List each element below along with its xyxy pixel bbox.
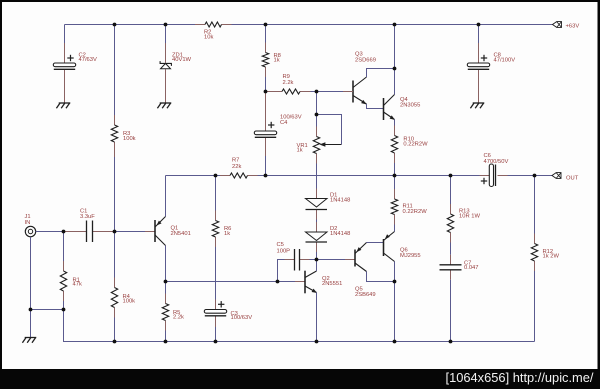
resistor R7 pins (220, 175, 258, 177)
capacitor C5 100P (277, 242, 300, 270)
wire Q2 collector up (316, 260, 318, 272)
capacitor C8 pins (478, 43, 480, 103)
capacitor C6 4700/50V (481, 153, 509, 187)
svg-text:[1064x656] http://upic.me/: [1064x656] http://upic.me/ (446, 371, 595, 385)
wire bottom rail left leg (64, 310, 535, 342)
resistor R9 2.2k (282, 74, 300, 94)
transistor Q1 2N5401 (155, 217, 191, 246)
junction node (114.5,341.5) (113, 340, 117, 344)
capacitor C2 pins (64, 43, 66, 103)
wire (31, 309, 64, 311)
terminal +63V (553, 22, 580, 30)
svg-text:2.2k: 2.2k (283, 80, 294, 86)
wire Q3 collector leg (367, 69, 395, 78)
wire (265, 25, 267, 43)
junction node (63.5,309.5) (62, 308, 66, 312)
svg-text:+63V: +63V (566, 24, 580, 30)
svg-text:0.22R2W: 0.22R2W (403, 209, 428, 215)
transistor Q4 2N3055 (384, 95, 421, 121)
svg-text:1k: 1k (224, 231, 230, 237)
junction node (316.5,91.5) (315, 90, 319, 94)
svg-text:47/63V: 47/63V (79, 57, 98, 63)
svg-text:1N4148: 1N4148 (330, 231, 350, 237)
wire (215, 247, 217, 300)
svg-text:2SB649: 2SB649 (355, 292, 376, 298)
terminal OUT (552, 173, 579, 182)
resistor R8 1k (262, 53, 281, 68)
resistor R8 pins (265, 43, 267, 78)
wire (534, 271, 536, 342)
capacitor C2 47/63V (53, 53, 97, 70)
ground under C8 (470, 103, 484, 108)
connector J1 IN (25, 214, 36, 237)
transistor Q3 2SD669 (353, 52, 376, 104)
wire (165, 25, 167, 44)
svg-text:OUT: OUT (566, 176, 579, 182)
junction node (394.5,68.5) (393, 67, 397, 71)
wire C5 left leg (278, 260, 285, 282)
svg-text:22k: 22k (232, 164, 241, 170)
wire (36, 231, 64, 233)
svg-text:R7: R7 (232, 158, 239, 164)
diode D2 pins (316, 222, 318, 252)
wire VR1 wiper loop (317, 115, 342, 145)
svg-text:0.22R2W: 0.22R2W (403, 141, 428, 147)
junction node (265.5,175.5) (264, 174, 268, 178)
transistor Q6 MJ2955 (384, 232, 421, 262)
svg-text:C4: C4 (280, 120, 288, 126)
capacitor C3 100/63V (204, 301, 252, 321)
wire (145, 231, 155, 233)
junction node (215.5,175.5) (214, 174, 218, 178)
junction node (316.5,259.5) (315, 258, 319, 262)
junction node (114.5,231.5) (113, 230, 117, 234)
svg-text:100P: 100P (277, 249, 291, 255)
resistor R3 pins (114, 115, 116, 157)
resistor R5 pins (165, 294, 167, 331)
wire (115, 231, 146, 233)
resistor R1 47k (60, 271, 82, 291)
wire Q5 collector leg (367, 272, 395, 282)
wire Q2 emitter down (316, 293, 318, 342)
wire (265, 156, 267, 176)
wire (394, 282, 396, 342)
junction node (277.5,281.5) (276, 280, 280, 284)
resistor R7 22k (230, 158, 248, 179)
junction node (394.5,175.5) (393, 174, 397, 178)
svg-text:3.3uF: 3.3uF (80, 214, 95, 220)
transistor Q2 2N5551 (305, 271, 342, 294)
wire (394, 176, 396, 190)
svg-text:1k: 1k (274, 57, 280, 63)
wire (450, 243, 452, 255)
svg-text:0.047: 0.047 (464, 265, 479, 271)
resistor R12 pins (534, 234, 536, 272)
svg-text:10k: 10k (204, 35, 213, 41)
wire (394, 163, 396, 176)
resistor R1 pins (63, 261, 65, 301)
wire (215, 327, 217, 342)
svg-text:47k: 47k (73, 281, 82, 287)
resistor R13 pins (450, 204, 452, 243)
svg-text:47/100V: 47/100V (494, 58, 516, 64)
capacitor C4 pins (265, 92, 267, 157)
resistor R2 pins (195, 24, 232, 26)
resistor R3 100k (111, 125, 135, 142)
wire feedback node rail (166, 175, 221, 177)
wire (114, 318, 116, 342)
wire +63V rail (regulated zener net, top left) (65, 24, 196, 26)
wire (345, 259, 355, 261)
wire (534, 176, 536, 234)
svg-text:2N3055: 2N3055 (400, 103, 420, 109)
wire (63, 232, 65, 262)
diode D1 1N4148 (306, 193, 351, 210)
trimmer VR1 pins (316, 127, 318, 164)
wire (317, 91, 344, 93)
wire (316, 252, 318, 260)
wire Q1 collector to Q2 base (166, 281, 296, 283)
svg-text:100k: 100k (123, 136, 136, 142)
resistor R5 2.2k (162, 304, 184, 321)
svg-text:100k: 100k (123, 298, 136, 304)
resistor R10 pins (394, 126, 396, 164)
svg-text:C5: C5 (277, 242, 284, 248)
junction node (265.5,91.5) (264, 90, 268, 94)
resistor R11 pins (394, 189, 396, 225)
resistor R2 10k (204, 22, 222, 41)
resistor R12 1k 2W (531, 244, 559, 262)
wire (64, 25, 66, 44)
junction node (114.5,24.5) (113, 23, 117, 27)
svg-text:2.2k: 2.2k (173, 314, 184, 320)
junction node (265.5,24.5) (264, 23, 268, 27)
svg-text:2N5551: 2N5551 (322, 281, 342, 287)
capacitor C8 47/100V (467, 53, 515, 70)
wire Q3 emitter to Q4 base (367, 104, 384, 109)
wire Q1 collector down (165, 246, 167, 282)
resistor R11 0.22R2W (391, 199, 427, 215)
svg-text:MJ2955: MJ2955 (400, 253, 421, 259)
junction node (63.5,231.5) (62, 230, 66, 234)
wire (317, 259, 346, 261)
svg-text:10R 1W: 10R 1W (459, 214, 480, 220)
wire (508, 175, 553, 177)
ground under ZD1 (157, 103, 171, 108)
wire (450, 280, 452, 342)
capacitor C6 pins (480, 175, 508, 177)
junction node (394.5,281.5) (393, 280, 397, 284)
svg-text:2SD669: 2SD669 (355, 57, 376, 63)
capacitor C5 pins (285, 259, 310, 261)
wire (114, 232, 116, 278)
svg-text:4700/50V: 4700/50V (484, 159, 509, 165)
resistor R6 1k (212, 221, 231, 238)
wire output rail (258, 175, 480, 177)
capacitor C7 0.047 (440, 260, 479, 271)
junction node (165.5,281.5) (164, 280, 168, 284)
wire Q5 emitter to Q6 base (367, 242, 384, 244)
junction node (394.5,341.5) (393, 340, 397, 344)
wire Q6 collector down (394, 262, 396, 282)
trimmer VR1 1k (297, 137, 342, 154)
svg-text:2N5401: 2N5401 (171, 231, 191, 237)
resistor R4 pins (114, 278, 116, 318)
wire (295, 281, 305, 283)
wire (215, 176, 217, 211)
wire collectors to +63V rail (394, 25, 396, 95)
wire (165, 282, 167, 294)
junction node (478.5,24.5) (477, 23, 481, 27)
resistor R13 10R 1W (447, 208, 480, 232)
svg-text:1k 2W: 1k 2W (543, 254, 560, 260)
junction node (450.5,341.5) (449, 340, 453, 344)
diode D2 1N4148 (306, 226, 351, 242)
wire (165, 331, 167, 342)
svg-text:100/63V: 100/63V (231, 315, 253, 321)
svg-text:1k: 1k (297, 147, 303, 153)
zener diode ZD1 40V1W (160, 53, 191, 69)
resistor R10 0.22R2W (391, 136, 428, 154)
junction node (165.5,24.5) (164, 23, 168, 27)
wire (343, 91, 353, 93)
svg-text:1N4148: 1N4148 (330, 197, 350, 203)
transistor Q5 2SB649 (355, 243, 376, 299)
wire +63V rail (main, top) (232, 24, 553, 26)
wire (316, 164, 318, 189)
resistor R6 pins (215, 211, 217, 248)
wire Q4 emitter down (394, 120, 396, 126)
capacitor C7 pins (450, 255, 452, 280)
capacitor C4 100/63V (254, 115, 301, 138)
resistor R9 pins (266, 91, 311, 93)
diode D1 pins (316, 189, 318, 220)
wire (310, 259, 317, 261)
wire Q6 emitter up (394, 225, 396, 232)
junction node (394.5,24.5) (393, 23, 397, 27)
capacitor C3 pins (215, 300, 217, 328)
junction node (215.5,341.5) (214, 340, 218, 344)
capacitor C1 pins (64, 231, 115, 233)
junction node (534.5,175.5) (533, 174, 537, 178)
wire (63, 301, 65, 310)
ground under C2 (56, 103, 70, 108)
wire (478, 25, 480, 44)
capacitor C1 3.3uF (80, 209, 95, 242)
wire (30, 237, 32, 310)
svg-text:IN: IN (25, 220, 31, 226)
resistor R4 100k (111, 288, 135, 308)
junction node (316.5,341.5) (315, 340, 319, 344)
wire (311, 91, 317, 93)
wire (450, 176, 452, 205)
wire (30, 310, 32, 338)
wire Q1 emitter to feedback rail (165, 176, 167, 217)
wire (114, 157, 116, 232)
junction node (165.5,341.5) (164, 340, 168, 344)
junction node (30.5,309.5) (29, 308, 33, 312)
wire (265, 77, 267, 92)
junction node (316.5,114.5) (315, 113, 319, 117)
junction node (450.5,175.5) (449, 174, 453, 178)
zener ZD1 pins (165, 43, 167, 103)
svg-text:40V1W: 40V1W (172, 57, 192, 63)
ground under J1 (22, 338, 36, 343)
wire (316, 92, 318, 127)
wire (316, 220, 318, 223)
wire (114, 25, 116, 116)
